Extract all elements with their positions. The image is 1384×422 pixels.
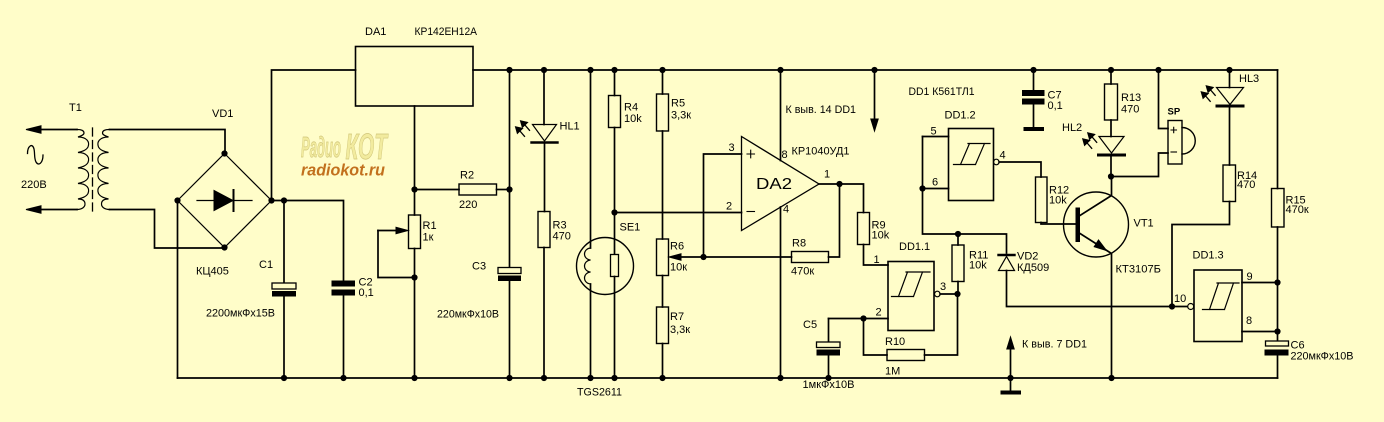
node HL2/VT1/SP junction — [1108, 173, 1114, 179]
svg-text:2: 2 — [726, 201, 732, 213]
Schmitt trigger DD1.3 box — [1194, 270, 1242, 342]
R1 wiper arrow — [378, 230, 397, 232]
svg-text:1: 1 — [874, 254, 880, 266]
svg-text:470к: 470к — [791, 266, 814, 278]
node R1 wiper to bottom — [411, 274, 417, 280]
svg-text:КР1040УД1: КР1040УД1 — [792, 146, 850, 158]
node R14 to pin10 wire — [1169, 303, 1175, 309]
svg-text:C5: C5 — [803, 319, 817, 331]
capacitor C3 — [509, 190, 511, 268]
op-amp DA2 — [742, 137, 820, 231]
svg-text:C3: C3 — [472, 261, 486, 273]
DD1.2 output bubble pin 4 — [994, 159, 1000, 165]
DD1.3 input bubble pin 10 — [1188, 304, 1194, 310]
svg-text:Радио: Радио — [301, 132, 341, 164]
svg-text:8: 8 — [782, 149, 788, 161]
svg-text:10k: 10k — [969, 260, 987, 272]
svg-text:DD1.2: DD1.2 — [945, 110, 976, 122]
regulator DA1 box — [356, 47, 474, 107]
svg-text:220мкФх10В: 220мкФх10В — [1291, 351, 1354, 363]
svg-text:1: 1 — [824, 169, 830, 181]
R6 wiper arrow — [680, 256, 704, 258]
svg-text:5: 5 — [931, 126, 937, 138]
svg-text:10k: 10k — [624, 113, 642, 125]
svg-text:DD1.1: DD1.1 — [899, 241, 930, 253]
svg-text:VD1: VD1 — [212, 108, 233, 120]
wire DA1 output +12V top rail — [473, 69, 1278, 71]
svg-text:R6: R6 — [670, 241, 684, 253]
HL1 emission arrows — [515, 121, 529, 137]
svg-text:DA2: DA2 — [756, 176, 792, 193]
bridge rectifier VD1 diamond — [178, 154, 272, 248]
svg-text:HL3: HL3 — [1239, 73, 1259, 85]
svg-text:T1: T1 — [69, 102, 82, 114]
VT1 base bar — [1076, 208, 1081, 243]
svg-text:8: 8 — [1246, 315, 1252, 327]
capacitor C6 — [1277, 283, 1279, 342]
node C1 bottom — [281, 375, 287, 381]
LED HL2 — [1099, 137, 1124, 154]
input terminal arrow bottom — [40, 209, 77, 211]
wire 0V bottom rail — [178, 377, 1278, 379]
node C2 bottom — [340, 375, 346, 381]
wire op-amp pin2 — [615, 212, 742, 214]
svg-text:2200мкФх15В: 2200мкФх15В — [206, 308, 275, 320]
node arrow rail — [871, 67, 877, 73]
DA2 plus input sign — [747, 150, 755, 158]
svg-text:10k: 10k — [1049, 195, 1067, 207]
svg-text:470: 470 — [553, 231, 571, 243]
svg-text:9: 9 — [1247, 271, 1253, 283]
svg-text:1к: 1к — [423, 232, 434, 244]
svg-text:C1: C1 — [259, 259, 273, 271]
svg-text:0,1: 0,1 — [1048, 100, 1063, 112]
T1 core dashed line — [92, 128, 94, 212]
node pin9/R15 — [1274, 279, 1280, 285]
wire R6 wiper to pin3 — [704, 154, 742, 257]
svg-text:R13: R13 — [1121, 92, 1141, 104]
node pin8 rail — [777, 67, 783, 73]
node C3 bottom — [506, 375, 512, 381]
svg-text:HL1: HL1 — [560, 121, 580, 133]
node bridge bottom vertex — [221, 244, 227, 250]
AC source sine symbol — [28, 146, 44, 164]
node SP rail — [1155, 67, 1161, 73]
svg-text:R7: R7 — [670, 311, 684, 323]
node SE1 heater rail — [587, 67, 593, 73]
node SE1/R4/pin2 junction — [611, 209, 617, 215]
VT1 collector lead up — [1080, 177, 1112, 216]
wire pins 5-6 tie down to VD2 line — [923, 137, 1007, 254]
svg-text:SP: SP — [1168, 107, 1181, 118]
LED HL3 — [1229, 70, 1231, 88]
SE1 heater wire from rail — [590, 70, 592, 248]
svg-text:3,3к: 3,3к — [670, 324, 690, 336]
watermark Радио КОТ — [301, 126, 389, 180]
node R1 bottom rail — [411, 375, 417, 381]
wire DA1 adjust pin down — [414, 106, 416, 189]
svg-text:HL2: HL2 — [1062, 122, 1082, 134]
HL3 emission arrows — [1201, 86, 1215, 102]
capacitor C5 — [828, 319, 830, 343]
wire DA2 pin 8 to rail — [780, 70, 782, 161]
svg-text:radiokot.ru: radiokot.ru — [301, 162, 385, 180]
svg-text:3,3к: 3,3к — [671, 110, 691, 122]
HL2 emission arrows — [1083, 133, 1097, 149]
capacitor C2 — [332, 281, 356, 287]
resistor R2 — [415, 189, 460, 191]
node VT1 emitter rail — [1108, 375, 1114, 381]
svg-text:4: 4 — [783, 204, 789, 216]
svg-text:R5: R5 — [671, 98, 685, 110]
node ground rail — [1007, 375, 1013, 381]
svg-text:К выв. 7 DD1: К выв. 7 DD1 — [1022, 339, 1087, 351]
node rail x509 — [506, 67, 512, 73]
svg-text:DD1.3: DD1.3 — [1193, 250, 1224, 262]
wire bridge left vertex down to 0V rail — [177, 201, 179, 379]
resistor R3 — [538, 212, 550, 248]
wire secondary bottom to bridge bottom vertex — [110, 210, 225, 249]
wire DD1.2 pin 6 — [923, 188, 949, 190]
svg-text:КР142ЕН12А: КР142ЕН12А — [415, 26, 478, 38]
wire DD1.3 pin 8 — [1242, 331, 1278, 333]
resistor R11 — [957, 282, 959, 295]
trimmer R1 — [414, 190, 416, 216]
wire DA2 output pin 1 — [819, 184, 864, 213]
svg-text:470к: 470к — [1286, 204, 1309, 216]
T1 secondary winding — [98, 130, 110, 210]
resistor R10 — [864, 319, 888, 356]
svg-text:220: 220 — [459, 199, 477, 211]
node bridge right vertex — [268, 197, 274, 203]
wire secondary top to bridge — [110, 130, 226, 154]
svg-text:0,1: 0,1 — [359, 287, 374, 299]
DD1.2 hysteresis symbol — [954, 144, 991, 165]
svg-text:10k: 10k — [872, 230, 890, 242]
ground symbol — [1010, 378, 1012, 390]
svg-text:R2: R2 — [460, 170, 474, 182]
node bridge top vertex — [221, 150, 227, 156]
node pin6 tie — [919, 185, 925, 191]
svg-text:2: 2 — [876, 307, 882, 319]
capacitor C1 — [283, 201, 285, 284]
DD1.1 output bubble pin 3 — [935, 291, 941, 297]
node HL3 rail — [1226, 67, 1232, 73]
SE1 sensing element — [614, 213, 616, 255]
svg-text:КД509: КД509 — [1017, 262, 1049, 274]
svg-text:SE1: SE1 — [620, 222, 641, 234]
wire DD1.1 pin 2 — [829, 318, 889, 320]
svg-text:R4: R4 — [624, 102, 638, 114]
svg-text:3: 3 — [729, 142, 735, 154]
svg-text:R10: R10 — [885, 336, 905, 348]
svg-text:DA1: DA1 — [365, 26, 386, 38]
svg-text:R1: R1 — [423, 220, 437, 232]
svg-text:220мкФх10В: 220мкФх10В — [437, 309, 499, 321]
speaker SP — [1159, 70, 1169, 129]
DD1.1 hysteresis symbol — [892, 272, 931, 297]
wire DA2 pin 4 to 0V rail — [780, 207, 782, 378]
node R7 bottom — [659, 375, 665, 381]
svg-text:TGS2611: TGS2611 — [577, 387, 622, 399]
node R2 left — [411, 186, 417, 192]
node R2 right — [506, 186, 512, 192]
resistor R5 — [662, 70, 664, 94]
node R4 top rail — [611, 67, 617, 73]
resistor R15 — [1277, 70, 1279, 189]
svg-text:R8: R8 — [792, 238, 806, 250]
wire output down to R8 — [829, 184, 840, 257]
wire bridge + output to C2 — [272, 201, 344, 281]
SP plus sign — [1171, 127, 1177, 132]
svg-text:10: 10 — [1174, 293, 1186, 305]
resistor R8 — [792, 252, 829, 263]
LED HL1 — [543, 70, 545, 125]
svg-text:1М: 1М — [885, 366, 900, 378]
wire +rail branch to R2/C3 — [509, 70, 511, 190]
capacitor C7 — [1033, 70, 1035, 90]
svg-text:10к: 10к — [670, 262, 687, 274]
node SE1 element bottom — [611, 375, 617, 381]
svg-text:3: 3 — [940, 281, 946, 293]
svg-text:КТ3107Б: КТ3107Б — [1116, 264, 1162, 276]
node C1 top — [281, 197, 287, 203]
svg-text:470: 470 — [1237, 179, 1255, 191]
node C7 rail — [1030, 67, 1036, 73]
svg-text:КЦ405: КЦ405 — [196, 266, 229, 278]
input terminal arrow top — [40, 129, 77, 131]
Schmitt trigger DD1.1 box — [888, 262, 934, 331]
T1 primary winding — [77, 130, 89, 210]
svg-text:220В: 220В — [21, 179, 47, 191]
resistor R14 — [1223, 165, 1236, 202]
svg-text:VT1: VT1 — [1134, 218, 1154, 230]
svg-text:6: 6 — [932, 177, 938, 189]
trimmer R6 — [657, 239, 669, 276]
svg-text:DD1 К561ТЛ1: DD1 К561ТЛ1 — [909, 86, 975, 98]
wire bridge right vertex up to DA1 input — [272, 70, 356, 201]
node R5 top rail — [659, 67, 665, 73]
resistor R12 — [1036, 177, 1048, 223]
C7 ground bar — [1026, 127, 1043, 131]
DD1.3 hysteresis symbol — [1203, 283, 1240, 310]
node R3 bottom — [541, 375, 547, 381]
node DD1.1 output — [954, 291, 960, 297]
VD1 diode symbol — [197, 200, 252, 202]
DA2 minus input sign — [747, 211, 755, 213]
gas sensor SE1 circle — [577, 238, 634, 295]
resistor R13 — [1110, 70, 1112, 84]
diode VD2 — [999, 254, 1015, 256]
svg-text:4: 4 — [1000, 150, 1006, 162]
transistor VT1 circle — [1064, 192, 1129, 257]
node R13 rail — [1108, 67, 1114, 73]
wire to pin 7 DD1 arrow — [1010, 348, 1012, 378]
svg-text:470: 470 — [1121, 104, 1139, 116]
SP minus sign — [1171, 151, 1177, 153]
resistor R9 — [858, 213, 870, 245]
resistor R7 — [657, 307, 669, 344]
VT1 emitter lead down — [1080, 234, 1112, 379]
Schmitt trigger DD1.2 box — [949, 129, 994, 201]
node pin8/C6 — [1274, 328, 1280, 334]
VT1 emitter arrow — [1094, 240, 1106, 251]
node wiper/R8 junction — [700, 254, 706, 260]
node HL1 top rail — [541, 67, 547, 73]
wire DD1.3 pin 9 — [1242, 282, 1278, 284]
node bridge left vertex — [174, 197, 180, 203]
node pin4 rail — [777, 375, 783, 381]
wire to pin 14 DD1 arrow — [874, 70, 876, 120]
svg-text:1мкФх10В: 1мкФх10В — [803, 379, 855, 391]
SE1 heater coil — [585, 248, 591, 284]
node pin2/C5/R10 — [860, 315, 866, 321]
svg-text:VD2: VD2 — [1017, 251, 1038, 263]
svg-text:К выв. 14 DD1: К выв. 14 DD1 — [786, 104, 857, 116]
node SE1 heater bottom — [587, 375, 593, 381]
wire DD1.2 pin 5 — [923, 136, 949, 138]
resistor R4 — [614, 70, 616, 96]
node C5 bottom — [825, 375, 831, 381]
node output pin1 — [836, 181, 842, 187]
node R11 top — [955, 231, 961, 237]
